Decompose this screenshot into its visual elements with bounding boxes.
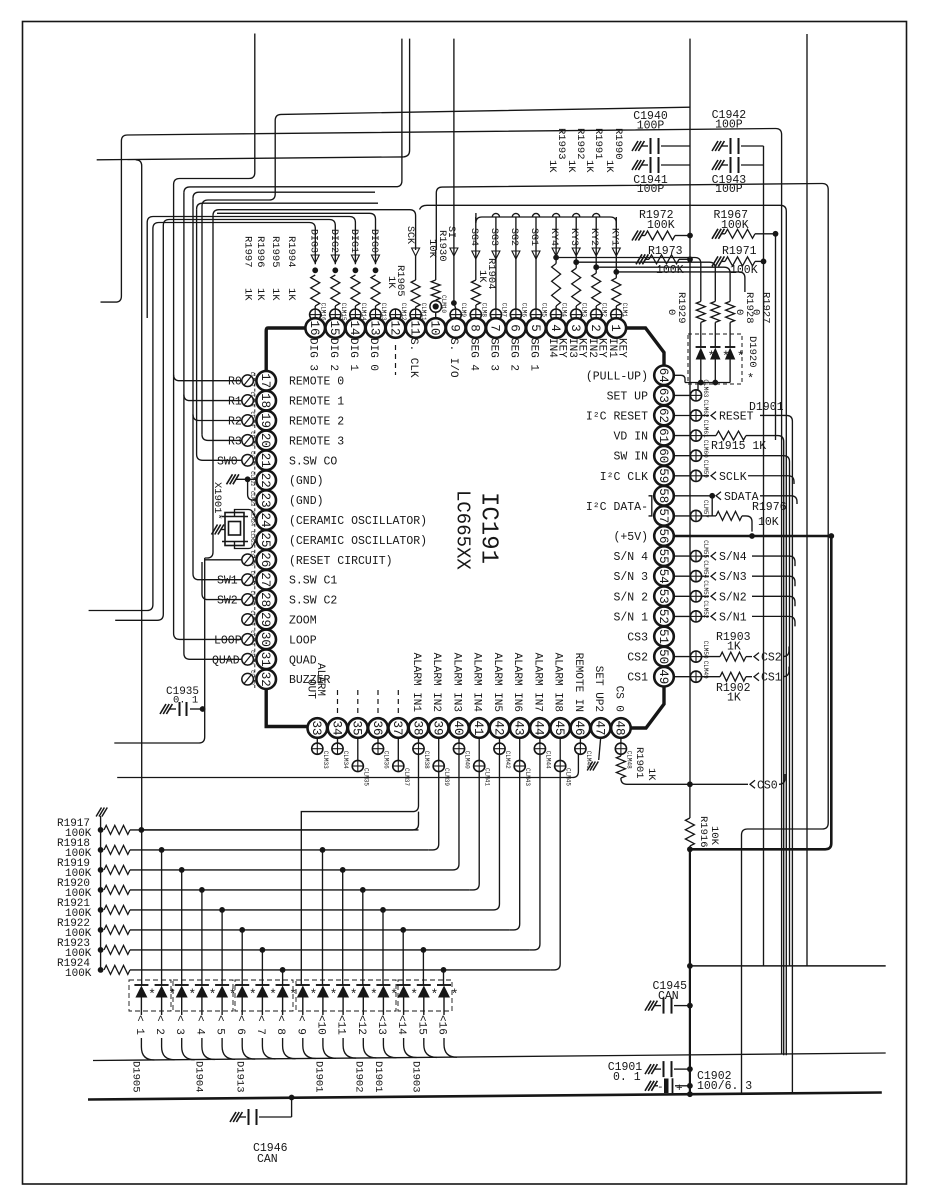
ground symbol pin22 bbox=[227, 474, 233, 484]
wire SI vertical from top bbox=[453, 39, 455, 305]
junction row 4 left bbox=[199, 887, 205, 893]
svg-text:59: 59 bbox=[656, 468, 670, 483]
pin 12 dashed label bbox=[395, 345, 397, 375]
svg-text:1K: 1K bbox=[285, 288, 297, 301]
svg-text:DIG3: DIG3 bbox=[308, 229, 319, 253]
pin 36 bbox=[368, 718, 388, 738]
diode matrix element 16 bbox=[437, 984, 451, 986]
svg-text:*: * bbox=[188, 987, 196, 1002]
svg-text:D1903: D1903 bbox=[410, 1061, 422, 1093]
svg-text:42: 42 bbox=[491, 720, 505, 735]
test point CLM36 bbox=[377, 737, 379, 743]
pin 32 bbox=[256, 669, 276, 689]
svg-text:R1992: R1992 bbox=[574, 128, 586, 160]
wire terminal 16 to bus bbox=[444, 1038, 457, 1057]
svg-text:100K: 100K bbox=[730, 264, 758, 277]
svg-text:25: 25 bbox=[258, 532, 272, 547]
resistor R1902 bbox=[702, 676, 720, 678]
svg-text:R3: R3 bbox=[228, 435, 242, 448]
svg-text:CLM15: CLM15 bbox=[340, 303, 347, 321]
svg-text:ALARM IN7: ALARM IN7 bbox=[531, 653, 543, 712]
pin 62 bbox=[654, 406, 674, 426]
svg-text:S/N 3: S/N 3 bbox=[613, 571, 648, 584]
svg-text:R1993: R1993 bbox=[555, 128, 567, 160]
test point CLM59 bbox=[673, 475, 690, 477]
wire pin39 to matrix row 2 bbox=[429, 772, 439, 850]
svg-text:< 4: < 4 bbox=[193, 1015, 205, 1035]
pin 4 bbox=[546, 318, 566, 338]
junction KY2 bbox=[593, 264, 599, 270]
test point CLM14 bbox=[350, 309, 361, 320]
wire SDATA to pin57 bbox=[711, 496, 713, 516]
svg-text:19: 19 bbox=[258, 413, 272, 428]
resistor R1905 bbox=[411, 280, 420, 307]
wire diode cols 2-8 from matrix rows bbox=[161, 850, 163, 985]
diode D1920 a bbox=[696, 346, 706, 348]
svg-text:4: 4 bbox=[548, 324, 562, 332]
wire bus y135 to right column bbox=[101, 129, 782, 1055]
wire R2 branch bbox=[193, 415, 242, 421]
pin 53 bbox=[654, 587, 674, 607]
capacitor C1946 bbox=[230, 1112, 236, 1122]
svg-text:1K: 1K bbox=[242, 288, 254, 301]
wire R1967 column bbox=[775, 234, 777, 440]
junction row 7 right bbox=[421, 947, 427, 953]
svg-text:< 9: < 9 bbox=[294, 1015, 306, 1035]
pin 19 bbox=[256, 411, 276, 431]
svg-text:R2: R2 bbox=[228, 416, 242, 429]
svg-text:*: * bbox=[370, 987, 378, 1002]
svg-text:CLM42: CLM42 bbox=[504, 751, 511, 769]
test point CLM43 bbox=[519, 737, 521, 760]
svg-text:I²C RESET: I²C RESET bbox=[586, 411, 648, 424]
svg-text:REMOTE IN: REMOTE IN bbox=[572, 653, 584, 712]
resistor R1929 bbox=[696, 301, 705, 322]
svg-text:(GND): (GND) bbox=[289, 475, 324, 488]
svg-text:KY4: KY4 bbox=[548, 228, 559, 246]
pin 59 bbox=[654, 466, 674, 486]
svg-text:QUAD: QUAD bbox=[289, 654, 317, 667]
test point CLM55 bbox=[673, 555, 690, 557]
test point CLM38 bbox=[418, 737, 420, 743]
pin 43 bbox=[510, 718, 530, 738]
svg-text:QUAD: QUAD bbox=[212, 654, 240, 667]
svg-text:39: 39 bbox=[431, 720, 445, 735]
test point CLM63 bbox=[673, 394, 690, 396]
svg-text:SET UP2: SET UP2 bbox=[592, 666, 604, 712]
wire stub y158 to top bbox=[97, 157, 404, 160]
svg-text:DIG0: DIG0 bbox=[368, 229, 379, 253]
svg-text:1K: 1K bbox=[385, 276, 397, 289]
junction KY4 bbox=[553, 255, 559, 261]
svg-text:62: 62 bbox=[656, 408, 670, 423]
node RESET arrow bbox=[702, 415, 709, 417]
junction row 4 right bbox=[360, 887, 366, 893]
svg-text:56: 56 bbox=[656, 528, 670, 543]
svg-text:R1927: R1927 bbox=[760, 292, 772, 324]
svg-text:5: 5 bbox=[528, 324, 542, 332]
svg-text:SEG 2: SEG 2 bbox=[507, 338, 519, 371]
svg-text:29: 29 bbox=[258, 612, 272, 627]
junction row 1 left bbox=[139, 827, 145, 833]
svg-text:10: 10 bbox=[428, 320, 442, 335]
svg-text:1: 1 bbox=[608, 324, 622, 332]
svg-text:20: 20 bbox=[258, 433, 272, 448]
svg-text:DIG1: DIG1 bbox=[348, 229, 359, 253]
pin 39 bbox=[429, 718, 449, 738]
junction row 3 left bbox=[179, 867, 185, 873]
wire terminal 1 to bus bbox=[141, 1038, 154, 1060]
resistor R1993 bbox=[552, 264, 561, 307]
resistor R1992 bbox=[572, 268, 581, 306]
resistor R1976 bbox=[702, 515, 716, 517]
svg-text:33: 33 bbox=[309, 720, 323, 735]
wire SCK to pin26 column bbox=[213, 210, 416, 250]
capacitor C1901 bbox=[645, 1064, 651, 1074]
svg-text:*: * bbox=[249, 987, 257, 1002]
svg-text:34: 34 bbox=[329, 720, 343, 735]
svg-text:D1901: D1901 bbox=[749, 401, 784, 414]
svg-text:CLM9: CLM9 bbox=[460, 303, 467, 318]
pin 38 bbox=[409, 718, 429, 738]
wire SG KY hop bumps on bus3 bbox=[492, 213, 499, 217]
wire R0 branch bbox=[174, 375, 242, 381]
diode array D1920 box bbox=[688, 334, 742, 384]
wire SG4 top bus bbox=[476, 213, 616, 227]
wire KY2 to R1927 bbox=[596, 267, 730, 301]
svg-text:*: * bbox=[451, 987, 459, 1002]
svg-text:18: 18 bbox=[258, 393, 272, 408]
svg-text:<10: <10 bbox=[314, 1015, 326, 1035]
svg-text:10K: 10K bbox=[426, 239, 438, 259]
svg-text:R1995: R1995 bbox=[269, 236, 281, 268]
svg-text:100K: 100K bbox=[647, 219, 675, 232]
svg-text:SW1: SW1 bbox=[217, 575, 238, 588]
svg-text:ALARM IN4: ALARM IN4 bbox=[471, 653, 483, 713]
wire KY1 feed bbox=[616, 272, 745, 292]
wire vertical x141.7 to diode col 1 bbox=[136, 160, 142, 985]
wire matrix row 6 bbox=[130, 929, 510, 931]
wire pin40 to matrix row 3 bbox=[449, 754, 459, 870]
junction row 6 left bbox=[239, 927, 245, 933]
svg-text:CS1: CS1 bbox=[761, 672, 782, 685]
svg-text:1K: 1K bbox=[645, 768, 657, 781]
test point CLM57 bbox=[673, 515, 690, 517]
svg-text:CLM8: CLM8 bbox=[480, 303, 487, 318]
wire matrix row 7 bbox=[130, 949, 530, 951]
svg-text:SW2: SW2 bbox=[217, 595, 238, 608]
pin 48 bbox=[611, 718, 631, 738]
svg-text:12: 12 bbox=[387, 320, 401, 335]
node CS1 arrow bbox=[754, 673, 759, 681]
svg-text:*: * bbox=[410, 987, 418, 1002]
wire terminal 11 to bus bbox=[343, 1038, 356, 1058]
test point CLM5 bbox=[530, 309, 541, 320]
svg-text:CLM43: CLM43 bbox=[524, 768, 531, 786]
pin 15 bbox=[326, 318, 346, 338]
svg-text:R1928: R1928 bbox=[743, 292, 755, 324]
svg-text:37: 37 bbox=[390, 720, 404, 735]
wire pin46 long line bbox=[117, 754, 578, 777]
svg-text:SEG 1: SEG 1 bbox=[528, 338, 540, 371]
pin 34 dashed label bbox=[337, 690, 339, 716]
pin 33 bbox=[308, 718, 328, 738]
svg-text:REMOTE 3: REMOTE 3 bbox=[289, 435, 344, 448]
pin 36 dashed label bbox=[377, 690, 379, 716]
svg-text:S. I/O: S. I/O bbox=[447, 338, 459, 378]
pin 1 bbox=[607, 318, 627, 338]
svg-text:0: 0 bbox=[750, 309, 762, 315]
svg-text:100/6. 3: 100/6. 3 bbox=[697, 1080, 752, 1093]
junction row 5 left bbox=[219, 907, 225, 913]
svg-text:CLM37: CLM37 bbox=[403, 768, 410, 786]
junction row 3 right bbox=[340, 867, 346, 873]
svg-text:< 7: < 7 bbox=[254, 1015, 266, 1035]
test point CLM62 bbox=[673, 415, 690, 417]
svg-text:IN4: IN4 bbox=[546, 338, 558, 358]
svg-text:CS3: CS3 bbox=[627, 632, 648, 645]
test point CLM4 bbox=[551, 309, 562, 320]
pin 17 bbox=[256, 371, 276, 391]
diode matrix element 11 bbox=[336, 984, 350, 986]
svg-text:*: * bbox=[737, 349, 745, 364]
svg-text:D1901: D1901 bbox=[313, 1061, 325, 1093]
svg-text:D1920: D1920 bbox=[746, 336, 758, 368]
diode matrix element 9 bbox=[296, 984, 310, 986]
wire R3 line from top bbox=[202, 107, 690, 434]
svg-text:DIG 0: DIG 0 bbox=[367, 338, 379, 371]
diode matrix element 3 bbox=[175, 984, 189, 986]
svg-text:S/N 1: S/N 1 bbox=[613, 611, 648, 624]
svg-text:IC191: IC191 bbox=[475, 492, 502, 564]
junction row 2 right bbox=[320, 847, 326, 853]
wire pin43 to matrix row 6 bbox=[510, 772, 520, 930]
svg-text:LOOP: LOOP bbox=[289, 634, 317, 647]
svg-text:22: 22 bbox=[258, 473, 272, 488]
resistor R1903 bbox=[702, 656, 720, 658]
svg-text:CLM4: CLM4 bbox=[561, 303, 568, 318]
wire +5V down bbox=[690, 536, 831, 850]
wire right vertical to ground bus bbox=[689, 849, 691, 1094]
wire C1940 top vertical bbox=[689, 39, 691, 146]
junction KY1 bbox=[613, 269, 619, 275]
svg-text:CLM46: CLM46 bbox=[585, 751, 592, 769]
svg-text:32: 32 bbox=[258, 672, 272, 687]
test point CLM60 bbox=[673, 455, 690, 457]
svg-text:55: 55 bbox=[656, 549, 670, 564]
svg-text:15: 15 bbox=[327, 320, 341, 335]
svg-text:40: 40 bbox=[451, 720, 465, 735]
junction C1946 bbox=[289, 1095, 295, 1101]
wire terminal 8 to bus bbox=[283, 1038, 296, 1059]
svg-text:DIG 2: DIG 2 bbox=[327, 338, 339, 371]
resistor R1967 bbox=[712, 229, 718, 239]
resistor R1972 bbox=[632, 231, 638, 241]
svg-text:ALARM IN8: ALARM IN8 bbox=[552, 653, 564, 712]
test point CLM37 bbox=[397, 737, 399, 760]
capacitor C1945 bbox=[645, 1001, 651, 1011]
resistor R1990 bbox=[612, 278, 621, 306]
test point CLM13 bbox=[370, 309, 381, 320]
svg-text:CLM7: CLM7 bbox=[500, 303, 507, 318]
svg-text:1K: 1K bbox=[476, 270, 488, 283]
svg-text:SW0: SW0 bbox=[217, 455, 238, 468]
svg-text:100P: 100P bbox=[637, 120, 665, 133]
svg-text:*: * bbox=[168, 987, 176, 1002]
svg-text:<16: <16 bbox=[436, 1015, 448, 1035]
svg-text:30: 30 bbox=[258, 632, 272, 647]
node SDATA arrow bbox=[673, 495, 712, 497]
resistor R1927 bbox=[726, 301, 735, 322]
svg-text:35: 35 bbox=[350, 720, 364, 735]
pin 51 bbox=[654, 627, 674, 647]
svg-text:LOOP: LOOP bbox=[214, 634, 242, 647]
wire caps left column / ground rail bbox=[689, 146, 691, 784]
test point CLM11 bbox=[410, 309, 421, 320]
svg-text:CS0: CS0 bbox=[757, 779, 778, 792]
resistor R1991 bbox=[592, 273, 601, 306]
pin 46 bbox=[571, 718, 591, 738]
IC191 body outline bbox=[306, 326, 616, 329]
resistor R1901 bbox=[620, 754, 622, 756]
svg-text:49: 49 bbox=[656, 669, 670, 684]
test point CLM48 bbox=[620, 737, 622, 743]
svg-text:38: 38 bbox=[410, 720, 424, 735]
svg-text:57: 57 bbox=[656, 508, 670, 523]
diode matrix element 15 bbox=[417, 984, 431, 986]
resistor R1996 bbox=[351, 275, 360, 306]
svg-text:SEG 3: SEG 3 bbox=[487, 338, 499, 371]
wire crystal to pin24 bbox=[235, 510, 257, 521]
wire pin26 branch bbox=[205, 559, 242, 561]
wire pin26 to circle bbox=[241, 559, 243, 561]
pin 30 bbox=[256, 630, 276, 650]
svg-text:< 6: < 6 bbox=[234, 1015, 246, 1035]
svg-text:23: 23 bbox=[258, 493, 272, 508]
svg-text:DIG 3: DIG 3 bbox=[307, 338, 319, 371]
svg-text:R1: R1 bbox=[228, 396, 242, 409]
svg-text:CLM2: CLM2 bbox=[601, 303, 608, 318]
svg-text:*: * bbox=[148, 987, 156, 1002]
pin 12 bbox=[386, 318, 406, 338]
pin 2 bbox=[586, 318, 606, 338]
svg-text:S. CLK: S. CLK bbox=[407, 338, 419, 378]
wire matrix row 8 bbox=[130, 969, 550, 971]
resistor R1922 bbox=[98, 927, 104, 933]
svg-text:R1991: R1991 bbox=[592, 128, 604, 160]
resistor R1930 bbox=[431, 280, 440, 300]
wire bus2 y205 from SCK col to right vertical bbox=[420, 205, 787, 1055]
test point CLM49 bbox=[673, 676, 690, 678]
svg-text:SCLK: SCLK bbox=[719, 471, 747, 484]
test point CLM53 bbox=[673, 595, 690, 597]
svg-text:+: + bbox=[676, 1083, 683, 1095]
pin 55 bbox=[654, 546, 674, 566]
resistor R1904 on SG4 bbox=[471, 280, 480, 305]
pin 21 bbox=[256, 451, 276, 471]
svg-text:<13: <13 bbox=[375, 1015, 387, 1035]
wire R1 QUAD line bbox=[184, 39, 402, 193]
svg-text:7: 7 bbox=[488, 324, 502, 332]
svg-text:54: 54 bbox=[656, 569, 670, 584]
svg-text:RESET: RESET bbox=[719, 411, 754, 424]
svg-text:1K: 1K bbox=[546, 160, 558, 173]
svg-text:-: - bbox=[657, 1082, 664, 1094]
svg-text:44: 44 bbox=[532, 720, 546, 735]
svg-text:*: * bbox=[289, 987, 297, 1002]
svg-text:S/N4: S/N4 bbox=[719, 551, 747, 564]
wire diode column 12 bbox=[362, 890, 364, 985]
test point CLM45 bbox=[559, 737, 561, 760]
resistor R1994 bbox=[311, 275, 320, 306]
svg-text:(CERAMIC OSCILLATOR): (CERAMIC OSCILLATOR) bbox=[289, 535, 427, 548]
left pin outer circle bbox=[242, 554, 254, 566]
resistor R1923 bbox=[98, 947, 104, 953]
wire pin64 to D1920 bbox=[674, 375, 685, 382]
svg-text:CLM6: CLM6 bbox=[520, 303, 527, 318]
test point CLM42 bbox=[499, 737, 501, 743]
svg-text:ALARM IN6: ALARM IN6 bbox=[511, 653, 523, 712]
svg-text:100P: 100P bbox=[715, 183, 743, 196]
diode matrix element 1 bbox=[134, 984, 148, 986]
wire DIG0 matrix line bbox=[217, 213, 376, 264]
svg-text:CLM39: CLM39 bbox=[443, 768, 450, 786]
diode matrix element 13 bbox=[376, 984, 390, 986]
diode matrix element 10 bbox=[316, 984, 330, 986]
wire matrix row 5 bbox=[130, 909, 490, 911]
svg-text:<11: <11 bbox=[335, 1015, 347, 1035]
svg-text:CLM11: CLM11 bbox=[420, 303, 427, 321]
test point CLM34 bbox=[337, 737, 339, 743]
node S/N3 arrow bbox=[702, 575, 709, 577]
diode matrix element 14 bbox=[397, 984, 411, 986]
svg-text:CLM33: CLM33 bbox=[322, 751, 329, 769]
pin 54 bbox=[654, 566, 674, 586]
capacitor C1940 bbox=[632, 141, 638, 151]
svg-text:CLM10: CLM10 bbox=[440, 295, 447, 313]
wire KY3 to R1928 bbox=[576, 262, 715, 301]
svg-text:S/N 4: S/N 4 bbox=[613, 551, 648, 564]
wire terminal 9 to bus bbox=[303, 1038, 316, 1059]
svg-text:LC665XX: LC665XX bbox=[452, 490, 474, 570]
test point CLM8 bbox=[470, 309, 481, 320]
resistor R1995 bbox=[331, 275, 340, 306]
svg-text:S.SW CO: S.SW CO bbox=[289, 455, 337, 468]
svg-text:10K: 10K bbox=[758, 516, 779, 529]
svg-text:REMOTE 0: REMOTE 0 bbox=[289, 376, 344, 389]
wire diode column 10 bbox=[322, 850, 324, 985]
pin 57-58 I2C DATA bracket bbox=[649, 496, 652, 516]
wire diode column 13 bbox=[382, 910, 384, 985]
svg-text:53: 53 bbox=[656, 589, 670, 604]
pin 11 bbox=[406, 318, 426, 338]
svg-text:CLM3: CLM3 bbox=[581, 303, 588, 318]
pin 10 bbox=[426, 318, 446, 338]
svg-text:CLM13: CLM13 bbox=[380, 303, 387, 321]
svg-text:R1971: R1971 bbox=[722, 245, 757, 258]
junction row 8 right bbox=[441, 967, 447, 973]
svg-text:CS1: CS1 bbox=[627, 672, 648, 685]
wire pin22 to pin23 bbox=[248, 479, 257, 500]
wire long bus y187 to R1930 column bbox=[436, 184, 828, 1094]
capacitor C1941 bbox=[632, 160, 638, 170]
svg-text:*: * bbox=[431, 987, 439, 1002]
svg-text:100K: 100K bbox=[721, 219, 749, 232]
node S/N4 arrow bbox=[702, 555, 709, 557]
svg-text:100K: 100K bbox=[65, 968, 92, 980]
node CS0 arrow bbox=[750, 780, 755, 788]
test point CLM39 bbox=[438, 737, 440, 760]
